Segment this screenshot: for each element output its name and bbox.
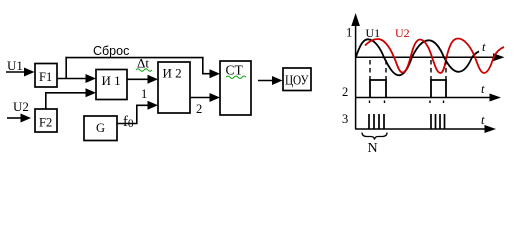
brace under burst 1 — [362, 133, 387, 140]
svg-text:2: 2 — [196, 102, 202, 116]
svg-text:Δt: Δt — [137, 56, 149, 71]
block CT (counter СТ) with green squiggle — [220, 61, 251, 115]
wire: reset arrow into CT first input — [202, 69, 220, 78]
wire: reset drop into CT — [202, 58, 204, 74]
pulse 1 (gate pulse) — [370, 80, 386, 98]
svg-text:1: 1 — [141, 87, 147, 101]
wire: U1 input arrow into F1 — [6, 68, 35, 77]
svg-text:F1: F1 — [39, 70, 52, 84]
wire: G output f0 up-and-over to I2 input 2 — [117, 101, 158, 124]
axis: row 3 horizontal t axis — [356, 125, 496, 133]
wire: F2 output up-and-over to I1 second input — [46, 88, 96, 109]
wire: reset branch riser from F1 output line — [65, 57, 67, 79]
wire: I2 output arrow to CT second input — [190, 93, 220, 102]
block I2 (AND gate И 2) — [158, 62, 190, 113]
svg-text:2: 2 — [342, 85, 348, 99]
curve U2 (red sine wave) — [365, 39, 504, 74]
wire: U2 input arrow into F2 — [7, 114, 31, 123]
block F2 — [35, 109, 57, 132]
svg-text:ЦОУ: ЦОУ — [285, 74, 309, 89]
wire: CT output arrow to TsOU — [258, 76, 283, 85]
block F1 — [35, 64, 57, 88]
svg-text:U1: U1 — [366, 26, 381, 40]
svg-text:Сброс: Сброс — [93, 44, 129, 58]
svg-text:И 2: И 2 — [163, 66, 182, 81]
wire: reset horizontal line (Sbros) — [65, 57, 203, 59]
pulse 2 (gate pulse) — [431, 80, 446, 98]
burst 2 (counted pulses) — [431, 114, 445, 129]
svg-text:U2: U2 — [13, 99, 29, 114]
axis: row 1 horizontal t axis — [356, 53, 505, 61]
dashed drop lines row1 to row2 pulse 1 — [370, 60, 386, 80]
svg-text:U2: U2 — [395, 26, 410, 40]
wire: I1 output arrow to I2 input 1 — [127, 75, 158, 84]
svg-text:t: t — [481, 82, 485, 96]
axis: vertical axis with up arrow — [351, 13, 360, 130]
block TsOU (ЦОУ display unit) — [283, 68, 311, 91]
curve U1 (black sine wave) — [356, 39, 479, 75]
label Δt with green squiggle — [136, 56, 152, 72]
dashed drop lines row1 to row2 pulse 2 — [431, 60, 446, 80]
block G (generator) — [84, 116, 117, 141]
wire: F1 output to AND gate I1 first input — [57, 74, 96, 83]
svg-text:СТ: СТ — [226, 63, 244, 78]
axis: row 2 horizontal t axis — [356, 94, 501, 102]
block I1 (AND gate И 1) — [96, 70, 127, 100]
svg-text:t: t — [482, 40, 486, 54]
svg-text:t: t — [481, 113, 485, 127]
svg-text:N: N — [368, 141, 378, 156]
dotted continuation below row2 axis — [370, 101, 444, 104]
svg-text:И 1: И 1 — [102, 73, 121, 88]
svg-text:3: 3 — [342, 112, 348, 126]
svg-text:F2: F2 — [39, 116, 52, 130]
svg-text:G: G — [96, 121, 105, 135]
svg-text:U1: U1 — [7, 58, 23, 73]
burst 1 (counted pulses) — [369, 114, 384, 129]
svg-text:1: 1 — [346, 26, 352, 40]
